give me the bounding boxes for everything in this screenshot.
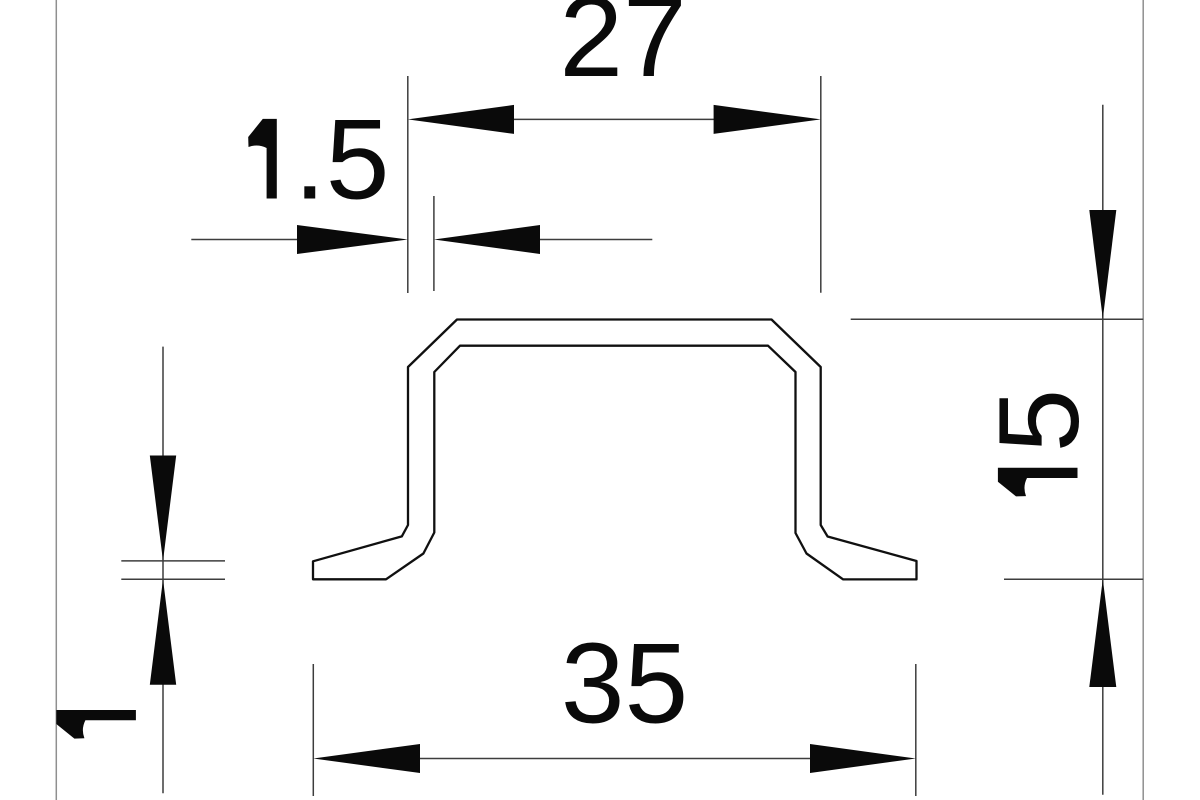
dim 1.5: right arrow (outside, pointing left) [434, 225, 540, 254]
dim 1: bottom extension line [121, 578, 225, 580]
dim 15: label (rotated) [998, 468, 1078, 497]
dim 15: dimension line [1102, 105, 1104, 795]
dim 1: top extension line [121, 560, 225, 562]
dim 35: extension line right [915, 664, 917, 796]
svg-text:5: 5 [975, 389, 1103, 453]
right page border [1142, 0, 1144, 800]
dim 1.5: left tail line [191, 239, 300, 241]
hat profile outline [313, 320, 917, 580]
dim 27: dimension line [510, 118, 718, 120]
dim 15: bottom arrow (outside, pointing up) [1089, 579, 1116, 687]
svg-text:.5: .5 [294, 96, 390, 224]
dim 15: top arrow (outside, pointing down) [1089, 210, 1116, 319]
dim 35: right arrow [810, 744, 916, 773]
dim 35: left arrow [313, 744, 420, 773]
dim 1.5: right tail line [540, 239, 652, 241]
dim 1.5: extension line right [433, 196, 435, 291]
left page border [55, 0, 57, 800]
dim 35: dimension line [416, 758, 814, 760]
dim 27: extension line right [820, 76, 822, 293]
dim 15: top extension line [851, 318, 1143, 320]
dim 35: extension line left [312, 664, 314, 796]
dim 1.5: label [248, 119, 277, 199]
dim 27: extension line left [407, 76, 409, 293]
dim 27: left arrow [408, 105, 514, 134]
dim 1: lower arrow (outside, pointing up) [150, 579, 176, 684]
svg-text:35: 35 [561, 620, 688, 748]
dim 1: label (rotated) [56, 710, 136, 739]
dim 1: upper arrow (outside, pointing down) [150, 456, 176, 561]
svg-text:27: 27 [559, 0, 686, 101]
dim 27: right arrow [714, 105, 821, 134]
dim 1.5: left arrow (outside, pointing right) [297, 225, 408, 254]
dim 1: dimension line [162, 347, 164, 794]
dim 15: bottom extension line [1004, 578, 1143, 580]
